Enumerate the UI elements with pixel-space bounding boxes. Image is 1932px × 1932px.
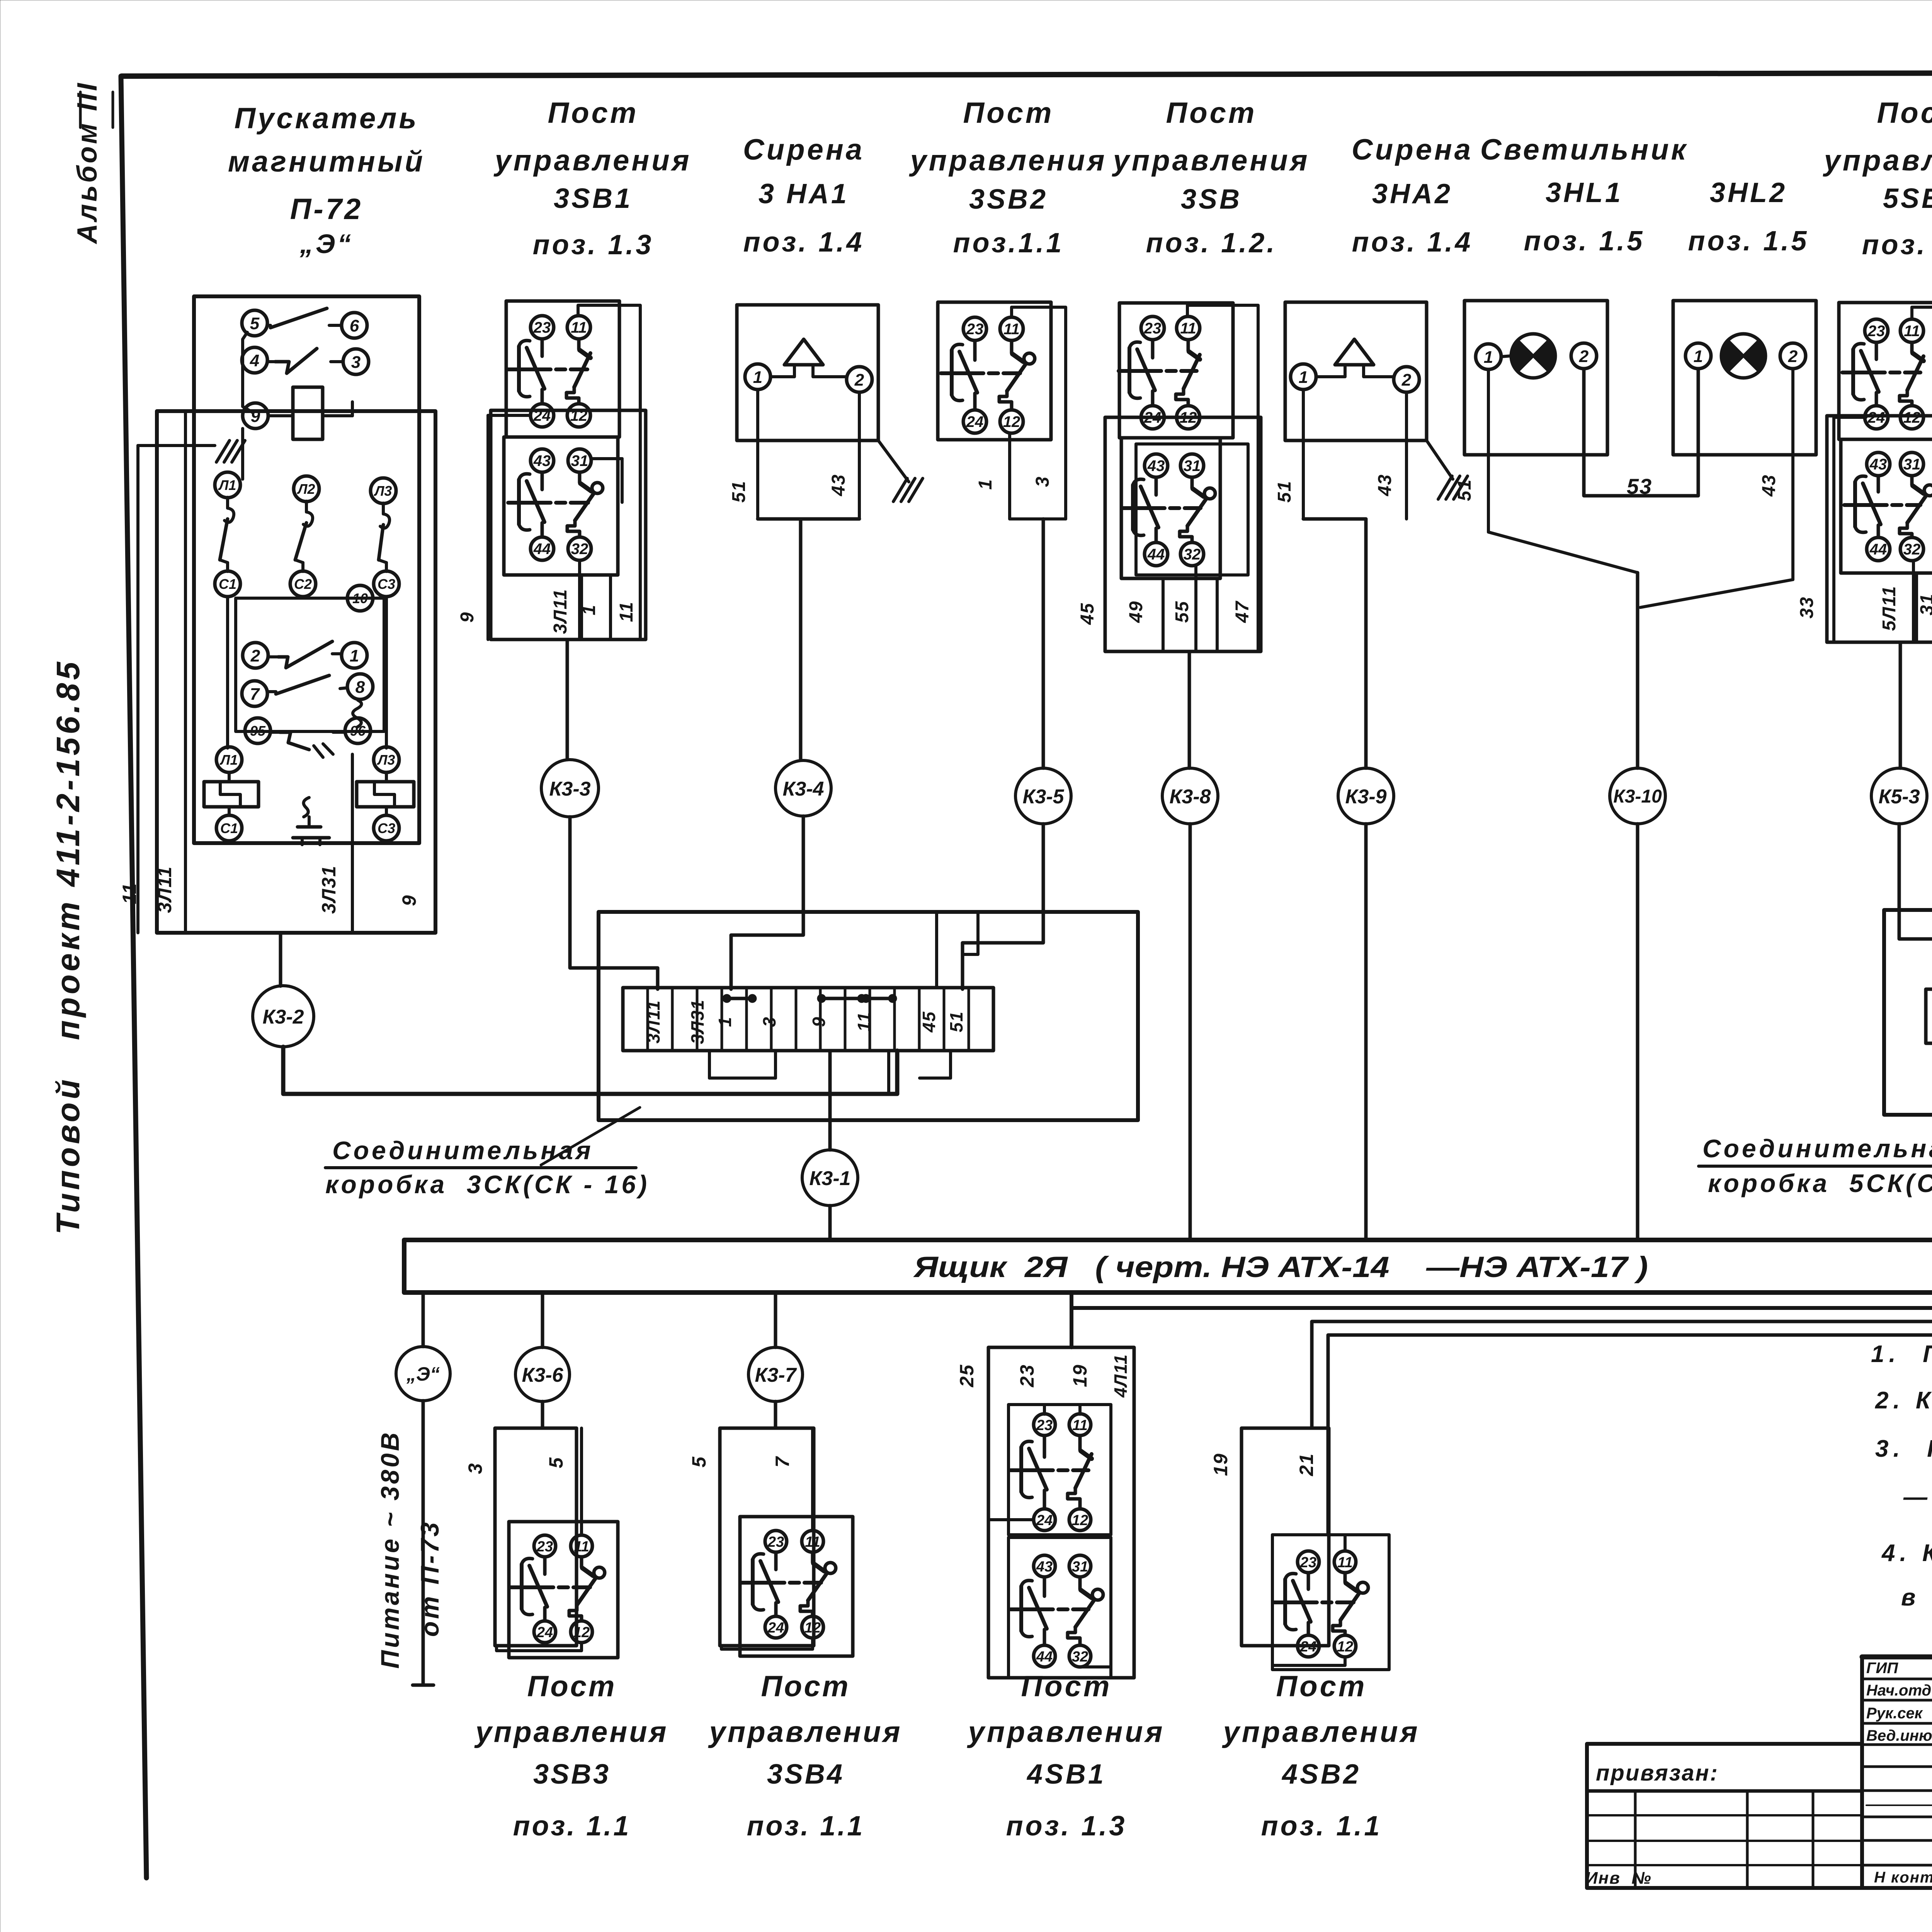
wire К3-8 to Ящик [1189, 824, 1192, 1240]
post 3SB lower contacts [1122, 454, 1215, 566]
svg-text:поз. 1.1: поз. 1.1 [1261, 1811, 1382, 1842]
caption П-72 [228, 102, 425, 259]
svg-text:47: 47 [1232, 600, 1253, 623]
svg-text:32: 32 [1072, 1649, 1088, 1665]
svg-text:32: 32 [571, 541, 588, 558]
svg-text:4SB2: 4SB2 [1281, 1759, 1361, 1790]
control post 3SB3 [464, 1293, 668, 1842]
control post 4SB1 outer box [956, 1347, 1134, 1678]
svg-text:С1: С1 [219, 576, 236, 592]
svg-text:24: 24 [1867, 409, 1885, 426]
leader 3СК [541, 1107, 640, 1165]
svg-text:Пост: Пост [963, 97, 1054, 129]
svg-text:К3-4: К3-4 [782, 778, 824, 800]
svg-text:3Л11: 3Л11 [643, 1000, 663, 1044]
svg-text:Питание ~ 380В: Питание ~ 380В [376, 1430, 404, 1668]
wire 9 down [241, 429, 244, 479]
svg-text:1: 1 [753, 368, 762, 387]
svg-text:3: 3 [759, 1016, 779, 1027]
margin text Типовой проект 411-2-156.85 [50, 659, 86, 1235]
terminal 9 [243, 403, 268, 429]
post 4SB2 contacts [1274, 1551, 1368, 1657]
wire 3СК to К3-1 [828, 1051, 832, 1150]
caption 4SB1 [967, 1670, 1165, 1842]
wire 3SB1 to К3-3 [566, 639, 569, 760]
heater squiggle 8-96 [353, 700, 362, 727]
svg-text:поз. 1.1: поз. 1.1 [747, 1811, 865, 1842]
svg-text:Сирена: Сирена [1352, 133, 1473, 166]
svg-text:Л3: Л3 [377, 752, 395, 768]
svg-text:Пост: Пост [548, 97, 639, 129]
caption 3SB2 [909, 97, 1107, 259]
release symbol [293, 798, 329, 845]
wire thermal-C1 [228, 772, 231, 815]
svg-text:8: 8 [355, 678, 365, 697]
svg-text:31: 31 [1072, 1559, 1088, 1575]
svg-text:Пост: Пост [761, 1670, 850, 1703]
svg-text:2: 2 [1401, 371, 1412, 389]
svg-text:23: 23 [966, 321, 984, 338]
ground lead 3HA1 [878, 440, 923, 502]
svg-text:43: 43 [1375, 474, 1395, 496]
svg-text:Сирена: Сирена [743, 133, 864, 166]
svg-text:7: 7 [772, 1456, 793, 1468]
svg-text:поз. 1.3: поз. 1.3 [533, 230, 654, 260]
svg-text:поз. 1.3: поз. 1.3 [1006, 1811, 1127, 1842]
svg-text:Нач.отд: Нач.отд [1866, 1682, 1931, 1699]
callout Соединительная коробка 3СК [325, 1136, 650, 1199]
label 3Л11 П-72 [154, 866, 175, 913]
svg-text:3: 3 [464, 1463, 486, 1474]
wire 24 to left edge [488, 415, 529, 639]
svg-text:11: 11 [616, 601, 637, 622]
svg-text:19: 19 [1210, 1453, 1231, 1476]
svg-text:5: 5 [250, 314, 260, 333]
svg-text:19: 19 [1069, 1364, 1091, 1387]
svg-text:Соединительная: Соединительная [332, 1136, 594, 1165]
wire 3HA2 to К3-9 [1364, 519, 1368, 768]
svg-text:51: 51 [1274, 480, 1295, 502]
svg-text:ГИП: ГИП [1866, 1660, 1898, 1677]
svg-text:95: 95 [250, 723, 266, 739]
svg-text:12: 12 [1337, 1639, 1353, 1655]
svg-text:4Л11: 4Л11 [1111, 1354, 1131, 1398]
svg-text:31: 31 [1903, 456, 1921, 473]
cable circle К3-9 [1338, 768, 1394, 824]
svg-text:51: 51 [729, 480, 749, 502]
wire 5SB1 to К5-3 [1899, 642, 1902, 768]
svg-text:К3-1: К3-1 [809, 1167, 850, 1190]
svg-text:23: 23 [1036, 1417, 1053, 1434]
svg-text:44: 44 [1147, 546, 1165, 563]
wire К3-3 to 3СК [570, 817, 658, 989]
lamp 3HL1 symbol [1511, 334, 1555, 378]
label 47 [1232, 600, 1253, 623]
svg-text:поз. 1.1: поз. 1.1 [513, 1811, 631, 1842]
svg-text:К3-7: К3-7 [755, 1364, 797, 1386]
svg-text:Пост: Пост [1877, 97, 1932, 129]
svg-text:43: 43 [1869, 456, 1887, 473]
svg-text:3: 3 [1032, 476, 1053, 487]
svg-text:коробка 5СК(СК-12): коробка 5СК(СК-12) [1708, 1169, 1932, 1197]
label 49 [1126, 600, 1146, 623]
svg-text:поз. 1.4: поз. 1.4 [1352, 227, 1473, 258]
caption 3SB [1112, 97, 1310, 259]
label 11 wire [119, 883, 140, 904]
lamp 3HL2 terminal 2 [1780, 343, 1806, 369]
svg-text:3НА2: 3НА2 [1372, 179, 1452, 209]
post 3SB1 upper box [506, 301, 619, 437]
label от П-73 [415, 1520, 444, 1637]
svg-text:11: 11 [1337, 1554, 1352, 1571]
label 33 5SB1 [1797, 596, 1817, 618]
post 3SB2 box [938, 302, 1051, 440]
label 9 bottom [398, 895, 420, 906]
post 3SB upper contacts [1119, 316, 1200, 429]
sheet top border [122, 72, 1932, 76]
post 4SB2 inner box [1272, 1535, 1389, 1670]
title block [1862, 1657, 1932, 1909]
sheet left border [121, 76, 146, 1878]
svg-text:23: 23 [1016, 1364, 1038, 1388]
svg-text:„Э“: „Э“ [299, 229, 353, 259]
svg-text:9: 9 [251, 407, 260, 426]
cable circle К3-3 [541, 760, 599, 817]
post 3SB lower box [1121, 438, 1248, 578]
svg-text:11: 11 [1003, 321, 1020, 338]
svg-text:К3-2: К3-2 [262, 1006, 304, 1028]
post 3SB2 contacts [941, 317, 1035, 433]
wire К3-10 to Ящик [1636, 824, 1639, 1240]
svg-text:3SB: 3SB [1181, 184, 1242, 215]
label 9 3SB1 [457, 612, 478, 623]
siren 3HA2 wires [1303, 389, 1406, 519]
label 1 3SB1 [579, 604, 599, 616]
svg-text:Альбом III: Альбом III [72, 81, 103, 244]
label 5Л11 5SB1 [1879, 585, 1900, 631]
wire 31 jog [591, 459, 622, 502]
svg-text:44: 44 [1869, 541, 1887, 558]
feeder line 380V [413, 1401, 434, 1685]
svg-text:25: 25 [956, 1364, 978, 1388]
svg-text:„Э“: „Э“ [406, 1363, 440, 1385]
post 5SB1 upper box [1839, 303, 1932, 439]
wire 3SB to К3-8 [1188, 651, 1191, 768]
box Ящик 2Я [404, 1240, 1932, 1293]
svg-text:4. Кабель и аппаратура, обозна: 4. Кабель и аппаратура, обозначенные „Э“… [1881, 1540, 1932, 1566]
svg-text:1. Позиции указаны по специф: 1. Позиции указаны по спецификации обору… [1871, 1341, 1932, 1367]
svg-text:43: 43 [533, 452, 551, 469]
svg-text:К3-8: К3-8 [1169, 786, 1211, 808]
label Питание 380В [376, 1430, 404, 1668]
caption 5SB1 [1823, 97, 1932, 260]
label 45 [1077, 602, 1098, 625]
post 5SB1 terminal box [1827, 416, 1932, 642]
wire 5SB1 32 down [1912, 561, 1915, 642]
svg-text:коробка 3СК(СК - 16): коробка 3СК(СК - 16) [325, 1170, 650, 1199]
post 3SB1 lower contacts [508, 449, 603, 560]
svg-text:3SB2: 3SB2 [969, 184, 1048, 215]
svg-text:5Л11: 5Л11 [1879, 585, 1900, 631]
wire C3 down [385, 597, 388, 748]
caption 3HL1 [1480, 133, 1688, 257]
svg-text:Н контр. подпись Ф.т. подп: Н контр. подпись Ф.т. подп [1874, 1869, 1932, 1886]
label 51 3HA1 [729, 480, 749, 502]
svg-text:1: 1 [1484, 348, 1493, 367]
post 4SB1 upper box [1009, 1405, 1111, 1535]
svg-text:2. Кабельный журнал ст. лист: 2. Кабельный журнал ст. лист АТХ-8 . [1875, 1387, 1932, 1414]
svg-text:Л2: Л2 [297, 481, 315, 497]
svg-text:5SB1: 5SB1 [1883, 183, 1932, 214]
svg-text:управления: управления [967, 1716, 1165, 1748]
svg-text:2: 2 [854, 371, 864, 389]
coil П-72 [268, 387, 352, 439]
svg-text:44: 44 [533, 541, 551, 558]
svg-text:6: 6 [350, 316, 359, 335]
caption 3SB1 [493, 97, 692, 260]
svg-text:44: 44 [1036, 1649, 1053, 1665]
aux contact box П-72 [236, 598, 384, 731]
wire C1 down [226, 597, 229, 748]
wire 3SB 11 right [1187, 305, 1258, 651]
svg-text:4SB1: 4SB1 [1026, 1759, 1106, 1790]
svg-text:96: 96 [350, 723, 366, 739]
svg-text:С3: С3 [378, 576, 395, 592]
wire to К3-10 [1636, 573, 1639, 768]
cable circle К3-2 [253, 986, 314, 1047]
svg-text:3Л11: 3Л11 [550, 588, 571, 634]
svg-text:Пост: Пост [1021, 1670, 1112, 1703]
svg-text:3Л31: 3Л31 [687, 999, 707, 1044]
control post 3SB4 [688, 1293, 902, 1842]
wire into cell 51 hook [963, 913, 978, 988]
svg-text:43: 43 [1036, 1559, 1053, 1575]
label 51 3HL1 [1454, 479, 1475, 501]
svg-text:12: 12 [573, 1624, 590, 1641]
wire 5SB1 11 right [1912, 307, 1932, 642]
terminal strip 5СК [1926, 989, 1932, 1043]
wire К4-4 run [1328, 1156, 1932, 1535]
junction box 5СК outline [1884, 910, 1932, 1115]
post 3SB1 upper contacts [508, 316, 590, 427]
label 43 3HA1 [828, 474, 849, 496]
svg-text:3Л11: 3Л11 [154, 866, 175, 913]
cable circle К3-10 [1610, 768, 1665, 824]
label 11 3SB1 [616, 601, 637, 622]
terminal Л3 lower [374, 747, 399, 772]
ground lead 3HA2 [1427, 440, 1468, 499]
svg-text:9: 9 [398, 895, 420, 906]
wire 11 outside [138, 446, 215, 933]
svg-text:управления: управления [708, 1716, 902, 1748]
svg-text:43: 43 [1759, 474, 1779, 497]
wire Ящик to Э [422, 1293, 425, 1347]
svg-text:К3-3: К3-3 [549, 778, 590, 800]
siren 3HA1 box [737, 305, 878, 440]
terminal C3 lower [374, 815, 399, 841]
svg-text:К5-3: К5-3 [1878, 786, 1920, 808]
wire into cell 45 [935, 913, 938, 988]
svg-text:9: 9 [457, 612, 478, 623]
svg-text:Соединительная: Соединительная [1702, 1134, 1932, 1163]
note 4b [1901, 1584, 1932, 1611]
svg-text:43: 43 [828, 474, 849, 496]
siren 3HA1 wires [758, 389, 859, 519]
svg-text:поз. 1.5: поз. 1.5 [1688, 226, 1809, 257]
svg-text:23: 23 [1867, 323, 1885, 340]
svg-text:1: 1 [1299, 368, 1308, 387]
svg-text:31: 31 [1184, 457, 1201, 474]
post 3SB1 terminal box [491, 410, 646, 639]
svg-text:поз. 1.2.: поз. 1.2. [1146, 228, 1277, 259]
svg-text:12: 12 [804, 1620, 821, 1636]
svg-text:привязан:: привязан: [1596, 1760, 1719, 1786]
wires below strip 3СК [709, 1051, 951, 1094]
label 53 [1627, 474, 1652, 498]
wire 3HA1 to К3-4 [799, 519, 803, 760]
margin text Альбом III [72, 81, 113, 244]
svg-text:поз.1.1: поз.1.1 [953, 228, 1064, 259]
svg-text:9: 9 [809, 1016, 829, 1027]
wire К4-1 run [1071, 1152, 1932, 1347]
wire 5SB1 24 left [1834, 417, 1866, 642]
wire 3SB 24 left [1105, 416, 1138, 419]
note 3 [1875, 1435, 1932, 1462]
pole Л2-С2 [290, 476, 319, 597]
wire К3-2 bus [283, 1047, 897, 1094]
svg-text:5: 5 [545, 1457, 567, 1468]
post 3SB1 lower box [504, 437, 618, 575]
svg-text:Л3: Л3 [374, 483, 392, 499]
svg-text:33: 33 [1797, 596, 1817, 618]
aux contact 95-96 [245, 718, 371, 757]
svg-text:11: 11 [1904, 323, 1920, 340]
svg-text:2: 2 [1788, 347, 1798, 366]
wire 51 3HL1 [1487, 369, 1490, 532]
post 3SB upper box [1119, 303, 1233, 438]
cable circle К3-4 [776, 760, 831, 816]
siren 3HA2 box [1285, 302, 1427, 440]
cable circle К3-1 [802, 1150, 858, 1206]
wire П-72 to К3-2 [279, 933, 282, 986]
post 4SB1 lower box [1009, 1537, 1111, 1678]
post 5SB1 lower contacts [1844, 452, 1932, 561]
svg-text:управления: управления [1222, 1716, 1420, 1748]
siren 3HA1 terminal 2 [847, 367, 872, 392]
svg-text:2: 2 [250, 646, 260, 665]
svg-text:Типовой проект 411-2-156.85: Типовой проект 411-2-156.85 [50, 659, 86, 1235]
cable circle К5-3 [1871, 768, 1927, 824]
svg-text:управления: управления [474, 1716, 668, 1748]
svg-text:Ящик 2Я ( черт. НЭ АТХ-14: Ящик 2Я ( черт. НЭ АТХ-14 —НЭ АТХ-17 ) [913, 1251, 1648, 1284]
svg-text:1: 1 [975, 479, 996, 490]
pole Л3-С3 [371, 478, 399, 597]
svg-text:3 НА1: 3 НА1 [759, 179, 849, 209]
svg-text:31: 31 [571, 452, 588, 469]
siren 3HA2 symbol [1316, 339, 1394, 377]
callout Соединительная коробка 5СК [1699, 1134, 1932, 1197]
label 31 5SB1 [1917, 593, 1932, 615]
svg-text:23: 23 [536, 1539, 553, 1555]
aux contact 7-8 [242, 674, 373, 706]
svg-text:К3-6: К3-6 [522, 1364, 563, 1386]
svg-text:51: 51 [946, 1011, 966, 1032]
post 3SB terminal box [1105, 417, 1261, 651]
svg-text:управления: управления [909, 144, 1107, 177]
svg-text:23: 23 [1144, 320, 1162, 337]
svg-text:Рук.сек: Рук.сек [1866, 1705, 1923, 1722]
caption 3HL2 [1688, 177, 1809, 257]
wire 53 bus [1584, 369, 1698, 496]
svg-text:— лист АТХ-3 п.1, л.2.: — лист АТХ-3 п.1, л.2. [1903, 1484, 1932, 1510]
svg-text:5: 5 [688, 1456, 710, 1468]
aux contact 2-1 [243, 641, 367, 668]
svg-text:23: 23 [533, 319, 551, 336]
svg-text:53: 53 [1627, 474, 1652, 498]
label 43 3HL2 [1759, 474, 1779, 497]
label 3Л31 [318, 865, 340, 914]
post 4SB1 lower contacts [1010, 1555, 1103, 1667]
svg-text:Инв №: Инв № [1585, 1869, 1652, 1888]
pole Л1-С1 [215, 472, 240, 597]
svg-text:магнитный: магнитный [228, 145, 425, 178]
svg-text:поз. 1.5: поз. 1.5 [1524, 226, 1645, 257]
svg-text:Пост: Пост [527, 1670, 617, 1703]
svg-text:55: 55 [1172, 600, 1192, 622]
svg-text:3SB1: 3SB1 [554, 183, 633, 214]
post 4SB1 wires [988, 1405, 1111, 1667]
wire 3SB 32 down [1194, 565, 1197, 651]
caption 3HA1 [743, 133, 864, 258]
hatch demontage П-72 [216, 440, 245, 462]
svg-text:11: 11 [1180, 320, 1196, 337]
cable circle К3-8 [1162, 768, 1218, 824]
siren 3HA2 terminal 2 [1394, 367, 1419, 392]
svg-text:управления: управления [1112, 144, 1310, 177]
post 5SB1 lower box [1841, 439, 1932, 573]
svg-text:24: 24 [1300, 1639, 1316, 1655]
svg-text:45: 45 [1077, 602, 1098, 625]
svg-text:24: 24 [536, 1624, 553, 1641]
label 55 [1172, 600, 1192, 622]
svg-text:К3-5: К3-5 [1022, 786, 1064, 808]
svg-text:23: 23 [767, 1534, 784, 1550]
wire 11 to right edge [578, 305, 640, 639]
svg-text:в чертежах комплекта ЭМ.: в чертежах комплекта ЭМ. [1901, 1584, 1932, 1611]
note 2 [1875, 1387, 1932, 1414]
wire К4-3 run [1312, 1152, 1932, 1428]
svg-text:1: 1 [350, 646, 359, 665]
svg-text:3. Принципиальная электричес: 3. Принципиальная электрическая схема уп… [1875, 1435, 1932, 1462]
wire К3-1 to Ящик [828, 1206, 832, 1240]
lamp 3HL1 box [1464, 301, 1607, 455]
post 4SB1 upper contacts [1010, 1414, 1092, 1531]
svg-text:11: 11 [574, 1539, 589, 1555]
svg-text:С2: С2 [294, 576, 312, 592]
svg-text:12: 12 [1003, 413, 1020, 430]
svg-text:49: 49 [1126, 600, 1146, 623]
control post 4SB2 box [1210, 1428, 1329, 1646]
caption 3HA2 [1352, 133, 1473, 258]
привязан table [1585, 1744, 1932, 1888]
svg-text:11: 11 [1072, 1417, 1087, 1434]
svg-text:управления: управления [493, 144, 692, 177]
lamp 3HL2 terminal 1 [1685, 343, 1711, 369]
svg-text:43: 43 [1147, 457, 1165, 474]
wire К3-9 to Ящик [1364, 824, 1368, 1240]
terminal 10 [240, 402, 373, 611]
svg-text:32: 32 [1184, 546, 1201, 563]
